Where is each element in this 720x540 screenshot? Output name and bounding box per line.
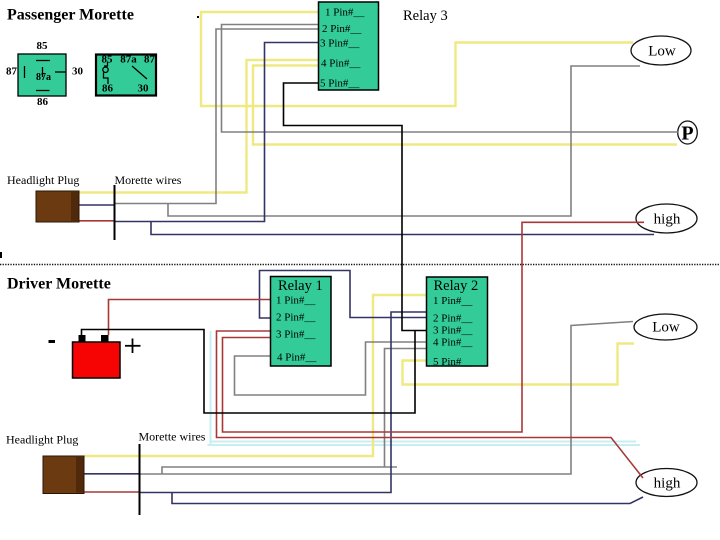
svg-text:Relay 3: Relay 3 [403,8,448,24]
svg-text:85: 85 [102,54,114,66]
svg-text:Relay 2: Relay 2 [434,278,479,294]
svg-text:86: 86 [102,83,114,95]
svg-text:4 Pin#__: 4 Pin#__ [433,337,473,349]
svg-text:87: 87 [144,54,156,66]
svg-text:Relay 1: Relay 1 [278,278,323,294]
svg-text:4 Pin#__: 4 Pin#__ [277,352,317,364]
svg-text:Morette wires: Morette wires [139,430,206,444]
svg-text:Low: Low [652,320,680,336]
svg-text:3 Pin#__: 3 Pin#__ [276,329,316,341]
svg-text:85: 85 [37,40,49,52]
svg-text:86: 86 [37,96,49,108]
svg-text:3 Pin#__: 3 Pin#__ [433,325,473,337]
svg-text:Headlight Plug: Headlight Plug [6,433,78,447]
svg-text:87a: 87a [36,72,51,83]
svg-text:high: high [654,476,681,492]
svg-text:87: 87 [6,66,18,78]
svg-text:Passenger Morette: Passenger Morette [7,7,134,24]
svg-text:87a: 87a [120,54,137,66]
svg-text:1 Pin#__: 1 Pin#__ [276,295,316,307]
svg-text:high: high [654,212,681,228]
svg-text:Headlight Plug: Headlight Plug [7,173,79,187]
svg-text:Morette wires: Morette wires [115,173,182,187]
svg-text:2 Pin#__: 2 Pin#__ [276,312,316,324]
svg-text:1 Pin#__: 1 Pin#__ [433,295,473,307]
svg-text:Low: Low [648,44,676,60]
svg-text:2 Pin#__: 2 Pin#__ [322,23,362,35]
svg-text:4 Pin#__: 4 Pin#__ [321,58,361,70]
svg-text:5 Pin#__: 5 Pin#__ [320,78,360,90]
svg-text:P: P [681,123,693,145]
svg-text:30: 30 [72,66,84,78]
svg-text:2 Pin#__: 2 Pin#__ [433,313,473,325]
svg-text:Driver Morette: Driver Morette [7,276,111,293]
svg-text:3 Pin#__: 3 Pin#__ [320,38,360,50]
svg-text:1 Pin#__: 1 Pin#__ [325,7,365,19]
svg-text:30: 30 [138,83,150,95]
svg-text:5 Pin#__: 5 Pin#__ [433,356,473,368]
